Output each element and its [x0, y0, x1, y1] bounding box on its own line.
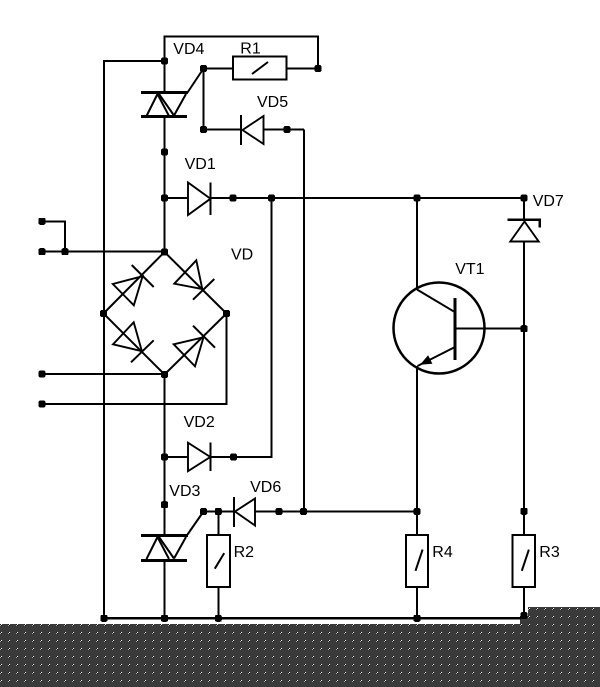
- wire R1 right to corner: [287, 68, 319, 70]
- wire R2 top lead: [217, 512, 219, 536]
- node terminal 3: [39, 371, 46, 378]
- svg-text:R4: R4: [432, 544, 453, 561]
- node rail dot upper: [161, 149, 168, 156]
- wire ground bus: [104, 617, 521, 620]
- node bridge left corner: [100, 310, 107, 317]
- wire VT1 emitter to R4: [416, 366, 418, 535]
- node VD5 right: [284, 126, 291, 133]
- bridge VD wires: [104, 252, 227, 375]
- wire VD7 bottom to R3 top: [523, 241, 525, 535]
- svg-text:R3: R3: [539, 544, 560, 561]
- wire R2 bottom lead: [217, 587, 219, 618]
- svg-text:VD4: VD4: [173, 41, 204, 58]
- diode VD2: [188, 443, 210, 472]
- transistor VT1: [394, 283, 485, 374]
- bridge diode top-left: [113, 265, 154, 305]
- wire VD1 anode stub: [165, 197, 189, 199]
- node VT1 collector top: [414, 195, 421, 202]
- diode VD6: [234, 497, 255, 527]
- svg-text:VD7: VD7: [533, 193, 564, 210]
- svg-text:VD: VD: [231, 247, 253, 264]
- node VD2 cathode dot: [230, 454, 237, 461]
- svg-text:VD5: VD5: [257, 94, 288, 111]
- svg-text:VD6: VD6: [250, 479, 281, 496]
- wire R4 bottom lead: [416, 587, 418, 618]
- bridge diode bottom-left: [113, 322, 154, 362]
- node ground R3: [521, 612, 528, 619]
- wire VD1 cathode to VD7 node: [211, 197, 525, 199]
- wire rail triac VD3 to ground: [164, 562, 166, 618]
- svg-text:R1: R1: [240, 41, 261, 58]
- svg-text:VT1: VT1: [455, 261, 484, 278]
- diode VD5: [241, 115, 264, 145]
- wire VD5 cathode to corner: [264, 129, 305, 131]
- wire gate node to R1 left: [204, 68, 234, 70]
- wire VT1 collector lead: [416, 198, 418, 290]
- wire VD2 output up to VD1 net: [210, 198, 271, 457]
- wire to VD5 anode: [204, 129, 242, 131]
- wire R3 bottom lead: [523, 587, 525, 616]
- wire rail bridge bottom to triac VD3: [164, 375, 166, 535]
- node VT1 base junction: [521, 325, 528, 332]
- node R1 right corner: [315, 65, 322, 72]
- node VD1 cathode dot: [230, 195, 237, 202]
- node rail dot lower: [161, 501, 168, 508]
- node VD3 gate: [200, 508, 207, 515]
- wire terminal 1 elbow: [42, 221, 65, 251]
- triac VD3: [141, 512, 204, 563]
- wire terminal 2 to bridge top corner: [42, 251, 165, 253]
- bridge diode top-right: [174, 260, 214, 299]
- node terminal join: [62, 248, 69, 255]
- ground plane right block: [528, 607, 600, 687]
- node terminal 1: [39, 218, 46, 225]
- node terminal 4: [39, 401, 46, 408]
- wire long vertical VD5 to VD6 net: [303, 130, 305, 512]
- wire VD6 anode to R4 node: [255, 511, 417, 513]
- ground plane step under R3 lead: [520, 616, 529, 626]
- node V9 top: [268, 195, 275, 202]
- svg-text:VD3: VD3: [169, 483, 200, 500]
- svg-text:R2: R2: [234, 544, 255, 561]
- resistor R2: [207, 535, 230, 587]
- node gate R1 left: [200, 65, 207, 72]
- node VD2 anode: [161, 454, 168, 461]
- wire terminal 4 to bridge right corner: [42, 314, 227, 405]
- node VD7 top: [521, 195, 528, 202]
- resistor R3: [512, 535, 535, 587]
- resistor R4: [406, 535, 428, 587]
- node ground R4: [414, 615, 421, 622]
- node VD4 top: [161, 58, 168, 65]
- node ground R2: [215, 615, 222, 622]
- node terminal 2: [39, 248, 46, 255]
- triac VD4: [141, 69, 204, 119]
- wire gate node to VD6 cathode: [204, 511, 235, 513]
- diode VD1: [188, 183, 211, 216]
- node VD6 anode dot: [276, 508, 283, 515]
- wire rail triac VD4 to bridge top: [164, 117, 166, 252]
- node VD1 anode: [161, 195, 168, 202]
- node V8 bottom: [300, 508, 307, 515]
- node bridge bottom corner: [161, 371, 168, 378]
- wire VD7 top lead: [523, 198, 525, 220]
- node ground left: [101, 615, 108, 622]
- ground plane bottom band: [0, 624, 600, 687]
- zener diode VD7: [508, 220, 540, 242]
- wire VT1 base to right rail: [455, 328, 524, 330]
- bridge diode bottom-right: [174, 326, 215, 367]
- node bridge top corner: [161, 249, 168, 256]
- svg-text:VD1: VD1: [185, 156, 216, 173]
- node VD5 left: [200, 126, 207, 133]
- node R3 rail dot: [521, 508, 528, 515]
- resistor R1: [233, 57, 287, 80]
- node bridge right corner: [223, 310, 230, 317]
- node ground VD3: [161, 615, 168, 622]
- wire terminal 3 to bridge bottom corner: [42, 373, 165, 375]
- wire VD2 anode stub: [165, 456, 189, 458]
- wire left rail from node to ground: [104, 61, 165, 618]
- svg-text:VD2: VD2: [184, 414, 215, 431]
- wire gate node down: [203, 69, 205, 130]
- node R2 top junction: [215, 508, 222, 515]
- wire top loop over R1: [165, 37, 319, 93]
- node R4 top junction: [414, 508, 421, 515]
